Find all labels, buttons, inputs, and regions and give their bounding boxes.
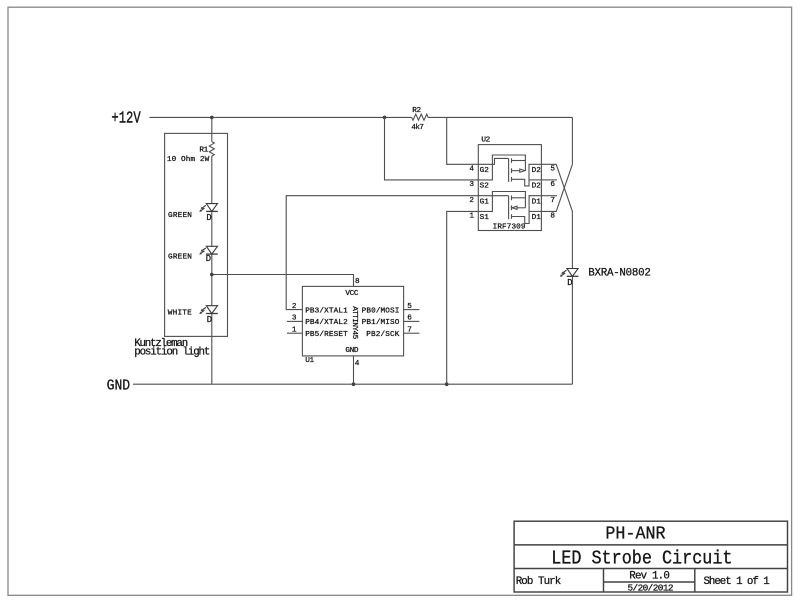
svg-text:D1: D1 [532, 214, 542, 222]
svg-text:IRF7309: IRF7309 [493, 223, 526, 231]
svg-text:D: D [207, 315, 212, 325]
svg-text:S1: S1 [480, 214, 490, 222]
svg-text:5/20/2012: 5/20/2012 [628, 583, 674, 594]
svg-text:D: D [206, 213, 211, 223]
svg-text:2: 2 [469, 197, 474, 205]
svg-text:D2: D2 [532, 183, 542, 191]
svg-text:PH-ANR: PH-ANR [605, 524, 666, 545]
svg-text:PB0/MOSI: PB0/MOSI [362, 307, 400, 315]
svg-text:D2: D2 [532, 167, 542, 175]
svg-text:4: 4 [355, 360, 360, 368]
svg-text:U2: U2 [481, 136, 490, 144]
svg-text:8: 8 [355, 278, 360, 286]
svg-text:U1: U1 [305, 357, 314, 365]
svg-text:5: 5 [407, 303, 412, 311]
svg-text:PB3/XTAL1: PB3/XTAL1 [305, 307, 348, 315]
svg-text:G2: G2 [480, 167, 490, 175]
svg-text:1: 1 [469, 213, 474, 221]
svg-text:10 Ohm 2W: 10 Ohm 2W [167, 156, 210, 164]
svg-text:Sheet 1 of 1: Sheet 1 of 1 [704, 576, 770, 588]
svg-text:LED Strobe Circuit: LED Strobe Circuit [551, 548, 732, 570]
svg-text:3: 3 [469, 181, 474, 189]
svg-text:2: 2 [292, 303, 297, 311]
svg-text:D: D [206, 254, 211, 264]
svg-text:4k7: 4k7 [411, 124, 424, 132]
svg-text:PB4/XTAL2: PB4/XTAL2 [305, 319, 348, 327]
svg-text:D1: D1 [532, 198, 542, 206]
svg-text:3: 3 [292, 315, 297, 323]
svg-text:VCC: VCC [345, 290, 358, 298]
svg-text:ATTINY45: ATTINY45 [350, 306, 358, 339]
svg-text:GND: GND [107, 378, 131, 395]
svg-text:Rev 1.0: Rev 1.0 [629, 570, 670, 582]
svg-text:7: 7 [550, 197, 555, 205]
svg-text:S2: S2 [480, 183, 490, 191]
svg-text:1: 1 [292, 326, 297, 334]
svg-text:GREEN: GREEN [168, 212, 192, 220]
svg-text:G1: G1 [480, 198, 490, 206]
svg-text:R2: R2 [412, 107, 421, 115]
svg-text:6: 6 [407, 315, 412, 323]
svg-text:+12V: +12V [111, 110, 141, 128]
svg-text:4: 4 [469, 165, 474, 173]
svg-text:PB2/SCK: PB2/SCK [366, 331, 399, 339]
svg-text:7: 7 [407, 326, 412, 334]
svg-text:GND: GND [345, 347, 358, 355]
svg-text:5: 5 [550, 165, 555, 173]
svg-text:PB5/RESET: PB5/RESET [305, 331, 348, 339]
svg-text:R1: R1 [199, 146, 208, 154]
svg-text:WHITE: WHITE [168, 310, 192, 318]
svg-text:GREEN: GREEN [168, 253, 192, 261]
svg-text:8: 8 [550, 213, 555, 221]
svg-text:position light: position light [134, 346, 210, 358]
svg-text:Rob Turk: Rob Turk [516, 576, 562, 588]
svg-text:D: D [567, 278, 572, 288]
svg-text:6: 6 [550, 181, 555, 189]
svg-text:BXRA-N0802: BXRA-N0802 [588, 268, 651, 280]
svg-text:PB1/MISO: PB1/MISO [362, 319, 400, 327]
